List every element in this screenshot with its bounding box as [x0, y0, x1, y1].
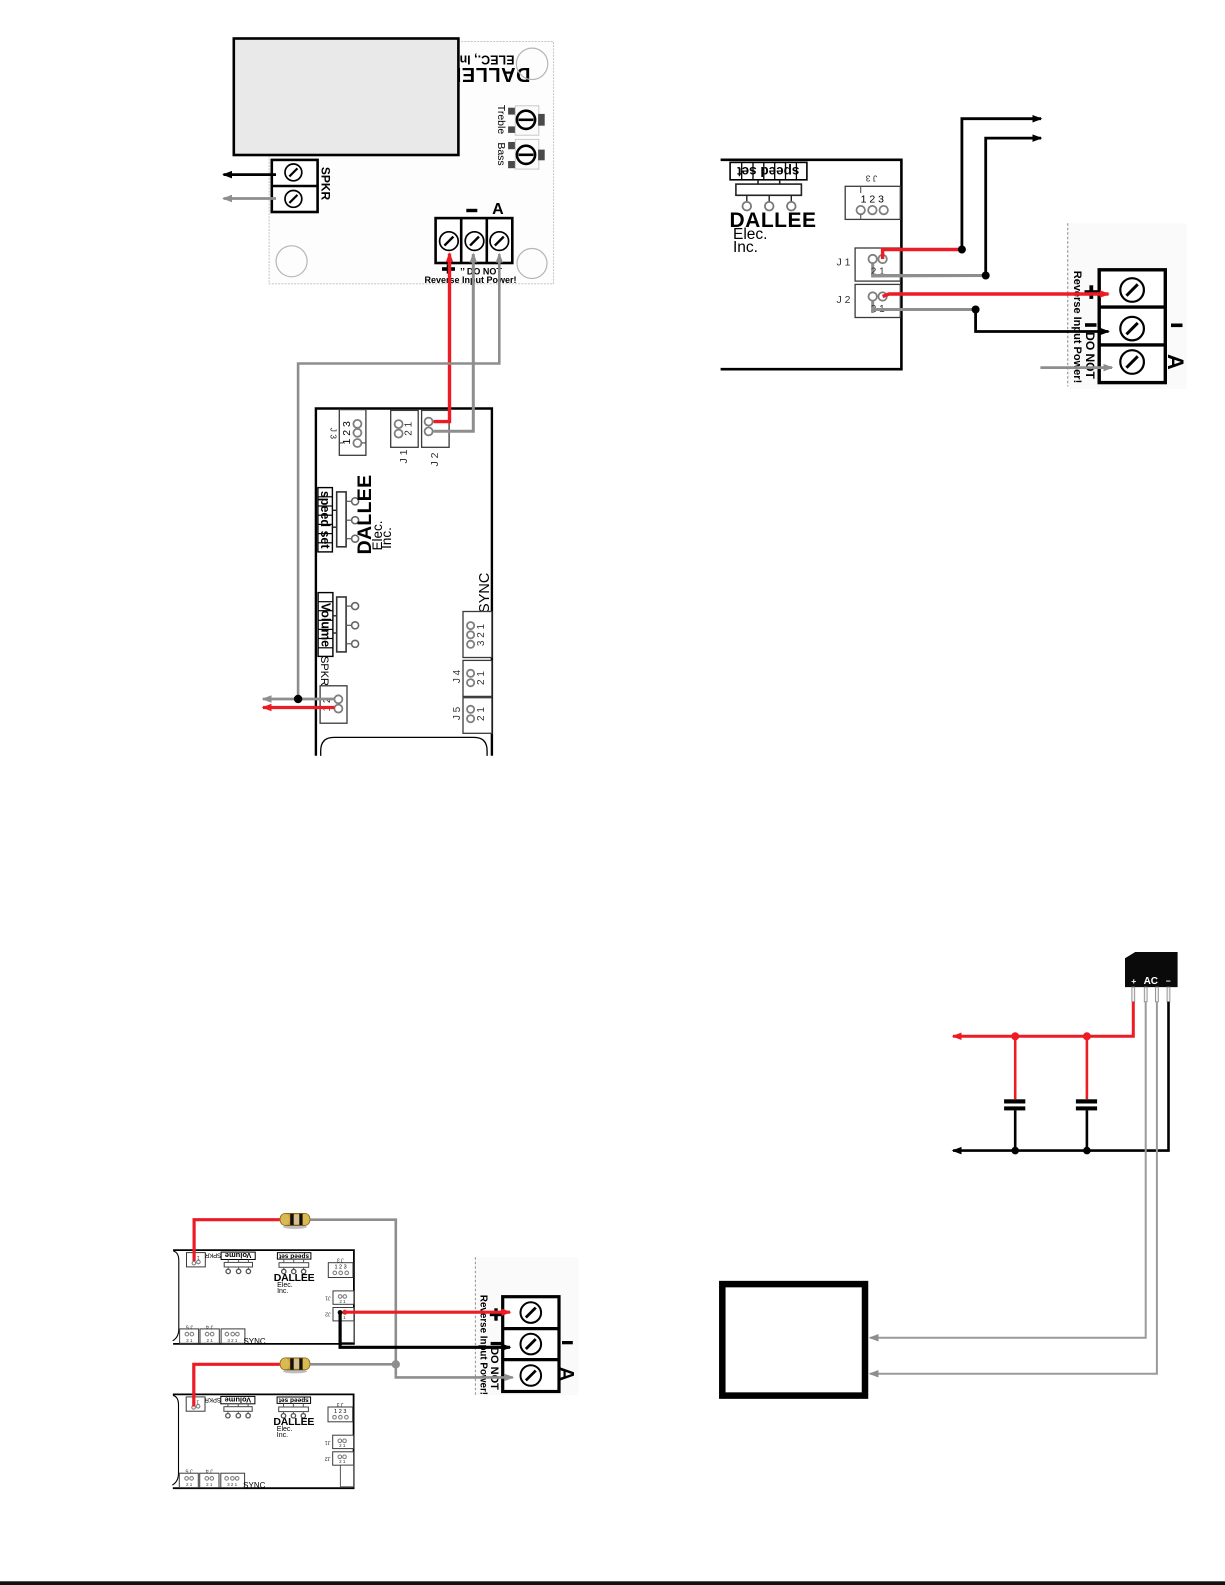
top-right board outline (cut at left)	[721, 160, 902, 369]
vertical terminal block (3-pos)	[1099, 270, 1165, 383]
junction dot red 2	[1083, 1032, 1091, 1040]
bottom terminal screw -	[521, 1334, 542, 1355]
svg-text:J 3: J 3	[329, 428, 339, 440]
rectifier pin 1 (+)	[1132, 987, 1135, 1002]
board A outline	[173, 1250, 354, 1344]
mounting hole bottom-right	[517, 249, 547, 279]
label minus right (bottom strip)	[562, 1341, 573, 1344]
svg-text:3 2 1: 3 2 1	[227, 1338, 238, 1343]
trimmer Bass body	[515, 139, 539, 169]
wire grey into A terminal	[1040, 366, 1112, 369]
svg-text:−: −	[1166, 976, 1171, 986]
capacitor C1 lead top	[1014, 1036, 1017, 1099]
page bottom scan band	[0, 1581, 1225, 1585]
J2 pins (top-right board)	[871, 299, 874, 313]
junction dot 2	[982, 272, 990, 280]
svg-text:J 2: J 2	[836, 294, 850, 306]
svg-text:SYNC: SYNC	[243, 1337, 265, 1346]
connector J3 (middle board)	[339, 410, 366, 456]
board A connector J4	[200, 1329, 219, 1343]
svg-text:SPKR: SPKR	[204, 1396, 221, 1402]
board A connector J3	[328, 1263, 353, 1278]
svg-text:J2: J2	[325, 1455, 331, 1461]
svg-text:3 2 1: 3 2 1	[227, 1482, 238, 1487]
board B connector J3	[328, 1407, 353, 1422]
label minus	[1085, 323, 1097, 327]
svg-text:2 1: 2 1	[404, 421, 415, 435]
svg-text:2 1: 2 1	[206, 1482, 213, 1487]
svg-text:speed set: speed set	[278, 1397, 309, 1404]
board B outline	[173, 1394, 354, 1488]
power screw 1 (+)	[440, 232, 459, 251]
wire grey PCB1(A) to middle board SPKR junction	[298, 254, 499, 697]
bottom terminal block (3-pos)	[503, 1297, 559, 1392]
rectifier pin 3 (AC)	[1156, 987, 1159, 1002]
svg-text:J 5: J 5	[186, 1323, 193, 1329]
svg-text:2 1: 2 1	[476, 671, 487, 685]
svg-text:DO NOT: DO NOT	[1083, 332, 1097, 379]
svg-text:2 1: 2 1	[206, 1338, 213, 1343]
J3 pins	[353, 420, 361, 428]
svg-text:3 2 1: 3 2 1	[476, 623, 487, 646]
svg-text:2 1: 2 1	[186, 1482, 193, 1487]
svg-text:J 1: J 1	[836, 256, 850, 268]
board A connector J2	[333, 1308, 354, 1321]
bottom terminal screw A	[521, 1365, 542, 1386]
silkscreen Volume (middle board)	[318, 593, 333, 657]
board A Volume trimpot	[224, 1262, 252, 1267]
speed set trimpot (middle board)	[337, 492, 346, 547]
board B connector J4	[200, 1473, 219, 1487]
board B connector J5	[179, 1473, 198, 1487]
board B silkscreen speed set	[277, 1397, 311, 1403]
svg-text:2 1: 2 1	[186, 1338, 193, 1343]
connector SPKR (middle board)	[320, 686, 347, 723]
wire red board B SPKR to R2	[194, 1364, 280, 1406]
power screw 2 (-)	[465, 232, 484, 251]
label plus	[1085, 290, 1099, 294]
svg-text:SPKR: SPKR	[204, 1252, 221, 1258]
junction dot 3	[972, 306, 980, 314]
svg-text:J2: J2	[325, 1311, 331, 1317]
wire black board A J2-2 to - terminal	[340, 1313, 510, 1348]
svg-text:Inc.: Inc.	[379, 527, 394, 549]
wire grey bus to A terminal	[396, 1376, 513, 1378]
svg-text:J 4: J 4	[206, 1323, 213, 1329]
junction dot grey	[392, 1360, 400, 1368]
svg-text:Volume: Volume	[318, 603, 332, 647]
wire red board A SPKR to R1	[194, 1220, 280, 1261]
capacitor C1 plates	[1004, 1099, 1025, 1103]
mounting hole top-right	[516, 48, 547, 79]
SPKR screw 1	[285, 164, 302, 181]
trimmer Treble body	[515, 106, 539, 135]
svg-text:DO NOT: DO NOT	[488, 1347, 500, 1390]
svg-text:J 3: J 3	[866, 174, 878, 184]
terminal screw +	[1120, 278, 1144, 302]
svg-text:Bass: Bass	[495, 142, 507, 165]
J1 pins	[395, 420, 403, 428]
label minus above terminal 2	[466, 209, 477, 212]
transformer box	[722, 1284, 865, 1396]
svg-text:1 2 3: 1 2 3	[341, 421, 353, 445]
board A edge connector ext	[341, 1321, 354, 1343]
svg-text:2 1: 2 1	[339, 1299, 346, 1304]
connector SYNC (middle board)	[463, 612, 492, 658]
power screw 3 (A)	[490, 232, 509, 251]
svg-text:Inc.: Inc.	[277, 1432, 288, 1439]
wire red PCB1(+) to middle board J2-1	[434, 254, 450, 422]
svg-text:J 2: J 2	[429, 452, 441, 466]
board B edge connector ext	[340, 1465, 353, 1487]
wire grey to speaker (middle board SPKR-2)	[263, 698, 335, 701]
board A left cut-out	[173, 1251, 179, 1341]
resistor R2	[280, 1358, 310, 1374]
svg-text:J 4: J 4	[452, 669, 463, 683]
svg-text:2 1: 2 1	[339, 1443, 346, 1448]
wire speaker grey from SPKR-2	[224, 197, 277, 200]
label minus (right)	[1171, 324, 1183, 328]
board A connector J1	[333, 1291, 354, 1304]
connector J5 (middle board)	[463, 698, 492, 734]
svg-text:J 1: J 1	[398, 449, 410, 463]
wire red from J1-1 to junction	[883, 250, 962, 260]
Volume trimpot (middle board)	[337, 597, 346, 652]
board B connector SPKR	[186, 1397, 205, 1411]
junction dot red 1	[1011, 1032, 1019, 1040]
pin dot red on board A J2	[342, 1310, 347, 1315]
svg-text:2 1: 2 1	[476, 707, 487, 721]
wire grey R2 to junction	[310, 1363, 396, 1366]
wire red DC+ from rectifier	[953, 1002, 1133, 1037]
board A connector SYNC	[221, 1329, 245, 1343]
svg-text:Volume: Volume	[225, 1251, 252, 1260]
svg-text:Treble: Treble	[495, 105, 507, 135]
board B silkscreen Volume	[221, 1396, 255, 1403]
wire red to speaker (middle board SPKR-1)	[263, 706, 335, 709]
svg-text:J 3: J 3	[337, 1257, 344, 1263]
svg-text:SYNC: SYNC	[477, 573, 493, 613]
silkscreen speed set (middle board)	[318, 488, 333, 552]
J3 pins (top-right board)	[857, 206, 865, 214]
wire speaker black from SPKR-1	[224, 173, 277, 176]
board A connector J5	[180, 1329, 199, 1343]
silkscreen speed set (top-right board)	[730, 162, 807, 179]
wire red from J2-1 to + terminal	[883, 294, 1109, 297]
svg-text:A: A	[1163, 354, 1188, 370]
board PCB1 outline	[269, 42, 553, 284]
svg-text:2 1: 2 1	[339, 1459, 346, 1464]
scan background behind bottom terminal strip	[475, 1257, 578, 1395]
svg-text:1 2 3: 1 2 3	[334, 1265, 346, 1271]
connector J4 (middle board)	[463, 660, 492, 696]
svg-text:SPKR: SPKR	[319, 167, 333, 201]
middle board bottom cut-out	[321, 737, 487, 756]
junction dot 1	[958, 246, 966, 254]
wire grey AC 2 from rectifier to transformer	[870, 1002, 1157, 1374]
middle board outline	[316, 409, 492, 756]
wire grey from J1-2 to junction	[873, 274, 986, 278]
junction dot black 2	[1083, 1147, 1091, 1155]
connector J2 (top-right board)	[855, 284, 900, 317]
svg-text:SPKR: SPKR	[318, 656, 330, 686]
wire red board A J2-1 to + terminal	[345, 1311, 510, 1314]
svg-text:J 5: J 5	[185, 1468, 192, 1474]
svg-text:ELEC., In: ELEC., In	[460, 53, 515, 67]
svg-text:Reverse Input Power!: Reverse Input Power!	[478, 1295, 489, 1395]
svg-text:speed set: speed set	[737, 164, 800, 179]
board A speed trimpot	[279, 1263, 309, 1268]
capacitor C2 lead top	[1086, 1036, 1089, 1099]
svg-text:1 2 3: 1 2 3	[334, 1409, 346, 1415]
connector J3 (top-right board)	[845, 186, 900, 219]
svg-text:Inc.: Inc.	[277, 1288, 288, 1295]
svg-text:Inc.: Inc.	[733, 239, 758, 256]
connector J1 (middle board)	[391, 410, 419, 447]
scan background behind terminal strip	[1068, 223, 1187, 389]
rectifier pin 2 (AC)	[1144, 987, 1147, 1002]
board A connector SPKR	[187, 1253, 206, 1267]
svg-text:speed set: speed set	[318, 491, 332, 550]
board B connector SYNC	[221, 1473, 245, 1487]
mounting hole bottom-left	[276, 246, 307, 277]
wire grey from J2-2 to junction 3	[873, 310, 976, 313]
label plus below terminal 1	[442, 267, 455, 271]
svg-text:J1: J1	[325, 1439, 331, 1445]
wire black from junction 3 to - terminal	[976, 310, 1109, 332]
svg-text:J1: J1	[325, 1295, 331, 1301]
svg-text:1 2 3: 1 2 3	[861, 194, 885, 206]
connector J2 (middle board)	[422, 410, 450, 447]
label plus (bottom strip)	[490, 1313, 503, 1316]
bridge rectifier body	[1125, 952, 1178, 987]
dashed board edge line	[1067, 223, 1069, 386]
SPKR screw 2	[285, 191, 302, 208]
board B connector J2	[333, 1452, 354, 1465]
svg-text:J 5: J 5	[452, 706, 463, 720]
terminal block SPKR on PCB1	[272, 160, 318, 212]
wire black 2 up-right with arrow	[986, 138, 1041, 275]
trimmer Bass knob	[517, 146, 535, 164]
board B Volume trimpot	[224, 1407, 252, 1412]
board B speed trimpot	[279, 1407, 309, 1412]
bottom terminal screw +	[521, 1302, 542, 1323]
module box (grey speaker/amp module) on PCB1	[234, 39, 459, 156]
terminal block power (3-pos) on PCB1	[436, 218, 513, 263]
wire grey PCB1(-) to middle board J2-2	[434, 254, 474, 431]
junction dot at middle SPKR wire	[294, 695, 302, 703]
svg-text:J 4: J 4	[206, 1468, 213, 1474]
board B connector J1	[333, 1435, 354, 1448]
pin dot black on board A J2	[338, 1310, 343, 1315]
svg-text:Volume: Volume	[225, 1396, 252, 1405]
wire black DC- from rectifier	[953, 1002, 1169, 1151]
board A silkscreen speed set	[277, 1253, 311, 1259]
wire black 1 up-right with arrow	[962, 119, 1041, 250]
dashed board edge line (bottom strip)	[474, 1257, 476, 1395]
trimmer Treble knob	[517, 111, 535, 129]
svg-text:Reverse Input Power!: Reverse Input Power!	[424, 275, 516, 285]
label minus (bottom strip)	[491, 1342, 502, 1345]
svg-text:A: A	[555, 1367, 577, 1381]
wire grey AC 1 from rectifier to transformer	[870, 1002, 1146, 1338]
svg-text:A: A	[492, 201, 504, 218]
wire grey R1 to down bus	[310, 1220, 396, 1376]
connector J1 (top-right board)	[855, 248, 900, 281]
capacitor C1 lead bottom	[1014, 1110, 1017, 1150]
terminal screw -	[1120, 317, 1144, 341]
capacitor C2 plates	[1076, 1099, 1097, 1103]
resistor R1	[280, 1213, 310, 1229]
capacitor C2 lead bottom	[1086, 1110, 1089, 1150]
J2 pins	[425, 418, 433, 426]
junction dot black 1	[1011, 1147, 1019, 1155]
svg-text:+: +	[1131, 976, 1136, 986]
svg-text:SYNC: SYNC	[243, 1481, 265, 1490]
speed set trimpot (top-right board)	[757, 180, 759, 184]
rectifier pin 4 (-)	[1167, 987, 1170, 1002]
board A silkscreen Volume	[221, 1252, 255, 1259]
svg-text:speed set: speed set	[278, 1252, 309, 1259]
terminal screw A	[1120, 350, 1144, 374]
board B left cut-out	[172, 1395, 178, 1485]
svg-text:AC: AC	[1144, 976, 1158, 987]
J1 pins (top-right board)	[871, 262, 874, 277]
svg-text:J 3: J 3	[336, 1401, 343, 1407]
